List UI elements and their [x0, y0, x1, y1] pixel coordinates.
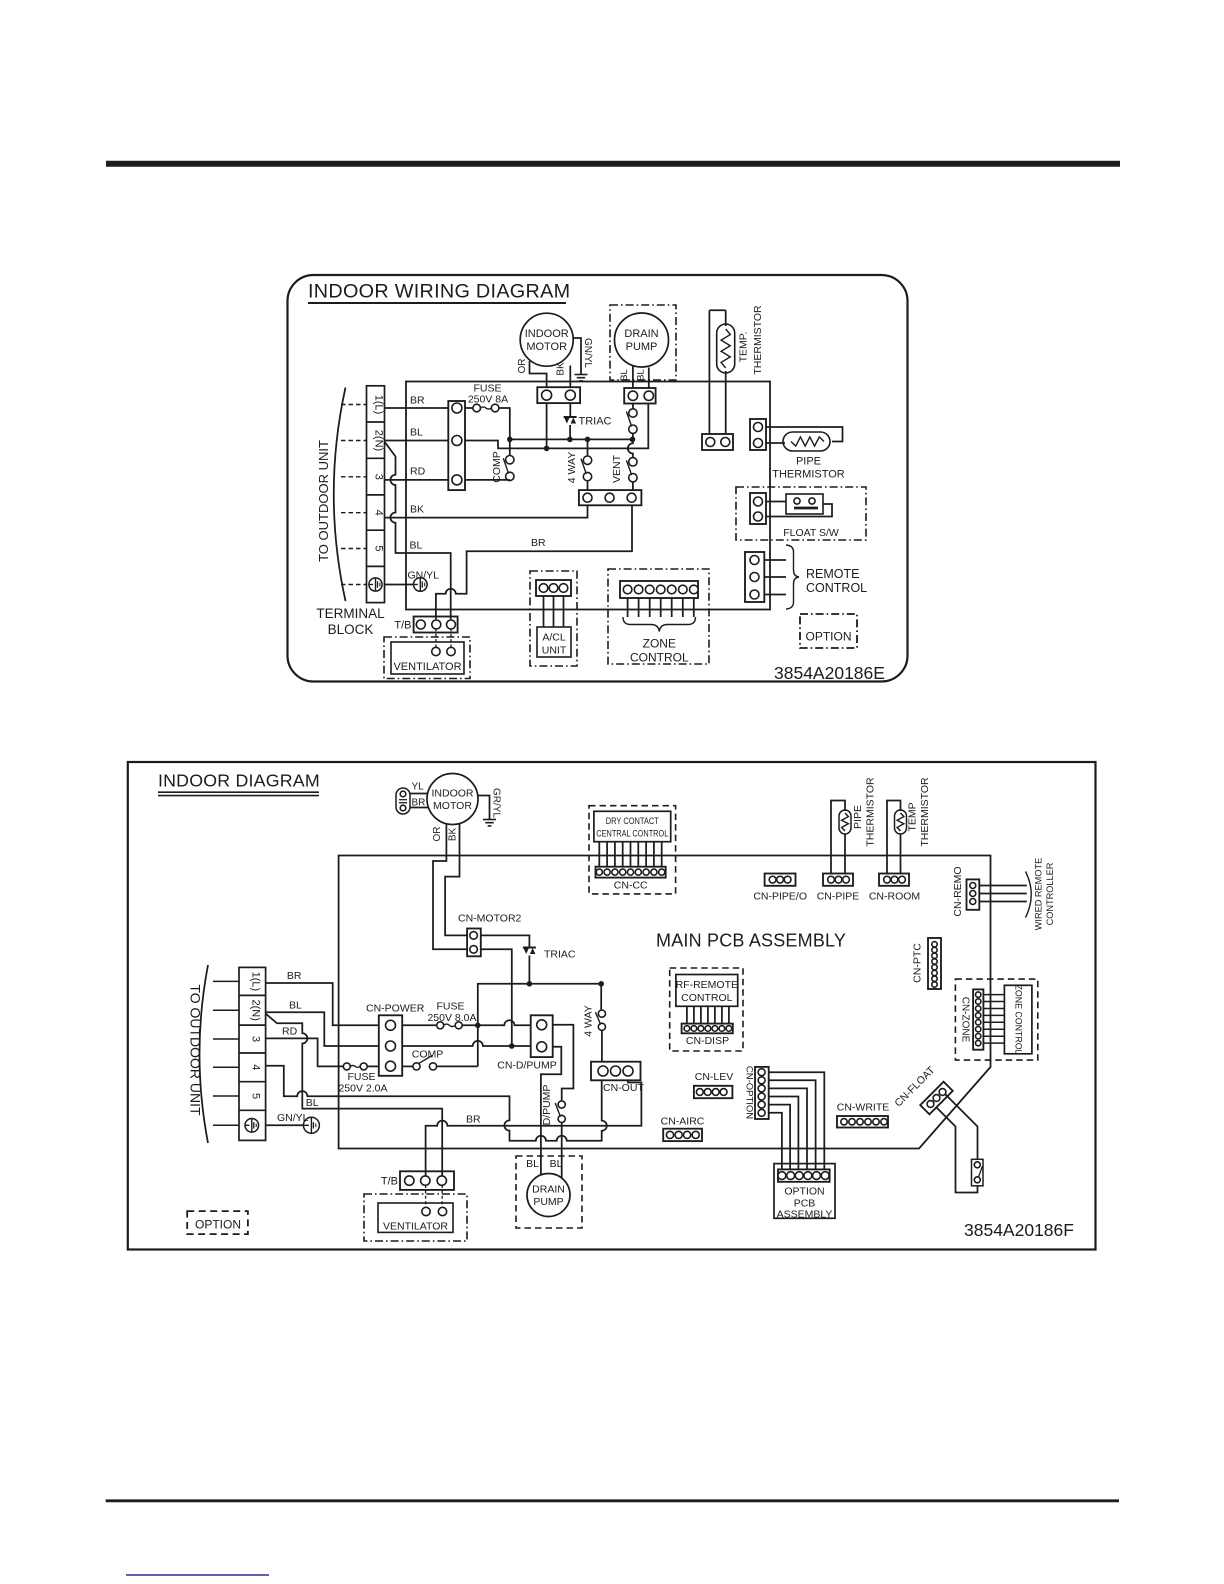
dry contact dashed box [589, 806, 676, 894]
CN-PTC pin8 [932, 982, 937, 987]
fuse 250V 8A [473, 404, 481, 412]
CN-LEV connector [694, 1086, 733, 1098]
GN/YL earth lug [414, 578, 428, 592]
remote wire 3 [764, 594, 786, 596]
svg-text:250V 8A: 250V 8A [468, 394, 508, 406]
terminal divider 2 (bottom) [239, 1024, 266, 1026]
drain lead BL right [648, 368, 650, 389]
float conn pin2 [754, 512, 763, 521]
cn-cc wire 1 [598, 842, 600, 867]
svg-text:CENTRAL CONTROL: CENTRAL CONTROL [596, 829, 668, 840]
svg-text:5: 5 [250, 1093, 262, 1099]
GN/YL earth lug (bottom) [303, 1117, 319, 1133]
CN-PTC pin3 [932, 953, 937, 958]
svg-text:OR: OR [517, 359, 528, 374]
svg-text:OPTION: OPTION [805, 630, 851, 644]
svg-text:CN-PIPE: CN-PIPE [817, 891, 860, 903]
svg-text:PIPE: PIPE [852, 805, 864, 829]
svg-text:RD: RD [410, 466, 426, 478]
wire triac to node (bottom) [528, 956, 530, 984]
svg-text:T/B: T/B [381, 1176, 398, 1188]
power connector pin1 [452, 403, 462, 413]
svg-text:A/CL: A/CL [542, 632, 566, 644]
pipe thermistor connector (2-pin vertical) [750, 419, 766, 450]
svg-text:MOTOR: MOTOR [433, 800, 472, 812]
main PCB outline (pentagon) [339, 856, 991, 1149]
VENT stub to relay connector [632, 482, 634, 490]
svg-text:COMP: COMP [412, 1049, 444, 1061]
svg-text:250V 2.0A: 250V 2.0A [338, 1083, 387, 1095]
float contact a [794, 498, 800, 504]
svg-text:BR: BR [466, 1114, 481, 1126]
stub terminal 1 (bottom) [213, 980, 239, 982]
svg-text:ZONE: ZONE [643, 637, 676, 651]
ventilator dashed riser 2 (top) [450, 628, 452, 647]
svg-text:4 WAY: 4 WAY [583, 1005, 595, 1037]
svg-text:MAIN PCB ASSEMBLY: MAIN PCB ASSEMBLY [656, 931, 846, 951]
svg-text:BK: BK [448, 828, 459, 842]
junction dot fuse8A output [475, 1023, 481, 1029]
bottom title underline 2 [158, 795, 319, 797]
hot node line A [510, 438, 633, 440]
motor connector (2-pin) [537, 387, 580, 403]
svg-text:CN-REMO: CN-REMO [952, 866, 964, 916]
float wire upper [766, 501, 786, 503]
zone wire 2 [638, 598, 640, 617]
dashed stub terminal 2 [341, 440, 367, 442]
indoor motor circle (bottom) [427, 774, 478, 825]
pipe thermistor element (bottom) [842, 813, 849, 831]
wired remote brace [1026, 872, 1032, 918]
option wire 4 [769, 1097, 799, 1170]
wire BK 4 to relay connector pin1 [385, 505, 588, 517]
svg-text:BR: BR [287, 970, 302, 982]
stub terminal 4 (bottom) [213, 1066, 239, 1068]
pipe thermistor leads (bottom) [831, 801, 845, 874]
svg-text:CN-PTC: CN-PTC [912, 943, 924, 983]
CN-ZONE pin6 [976, 1027, 981, 1032]
svg-text:CONTROL: CONTROL [630, 651, 689, 665]
svg-text:CONTROL: CONTROL [806, 581, 867, 595]
svg-text:GN/YL: GN/YL [277, 1112, 309, 1124]
t/b connector (3-pin) [414, 617, 458, 633]
cn-cc wire 9 [661, 842, 663, 867]
svg-text:CN-DISP: CN-DISP [686, 1035, 729, 1047]
svg-text:GR/YL: GR/YL [491, 788, 502, 818]
CN-PTC pin4 [932, 959, 937, 964]
CN-REMO pin2 [970, 891, 976, 897]
zone wire 1 (bottom) [983, 994, 1004, 996]
temp thermistor right lead upper [725, 310, 727, 326]
CN-OPTION pin5 [758, 1101, 765, 1108]
capacitor contact top [400, 791, 406, 797]
stub terminal 3 (bottom) [213, 1038, 239, 1040]
CN-PTC pin5 [932, 965, 937, 970]
CN-OPTION pin4 [758, 1093, 765, 1100]
zone brace (down) [623, 617, 696, 632]
t/b connector (bottom) [400, 1171, 454, 1190]
svg-text:WIRED REMOTE: WIRED REMOTE [1034, 858, 1044, 930]
4 WAY stub to relay connector [587, 481, 589, 490]
zone wire 7 [693, 598, 695, 617]
drain pump connector (2-pin) [624, 388, 655, 404]
float wire loop [766, 504, 832, 517]
CN-REMO pin1 [970, 883, 976, 889]
drain pump dashed box [610, 305, 676, 380]
wire1 pin1 to fuse8A [402, 1024, 437, 1026]
motor lead OR (bottom) [433, 824, 467, 950]
CN-POWER pin1 [386, 1020, 396, 1030]
svg-text:BL: BL [306, 1097, 319, 1109]
svg-text:BL: BL [526, 1158, 539, 1170]
junction dot vent/drain [630, 437, 636, 443]
fuse 250V 2.0A [343, 1063, 350, 1070]
cn-disp wire 4 [707, 1006, 709, 1023]
svg-text:CN-WRITE: CN-WRITE [837, 1102, 890, 1114]
zone wire 5 [671, 598, 673, 617]
svg-text:DRY CONTACT: DRY CONTACT [606, 816, 659, 827]
svg-text:TEMP.: TEMP. [738, 332, 750, 363]
CN-REMO pin3 [970, 899, 976, 905]
top diagram title underline [308, 302, 566, 304]
svg-text:TERMINAL: TERMINAL [316, 606, 385, 621]
drain pump dashed box (bottom) [516, 1156, 582, 1228]
dashed stub terminal 5 [341, 548, 367, 550]
svg-text:BL: BL [619, 369, 630, 381]
remote pin1 [750, 556, 759, 565]
svg-text:5: 5 [373, 545, 385, 551]
remo wire 1 [979, 885, 1027, 887]
terminal block divider 1 [367, 421, 385, 423]
zone wire 3 [649, 598, 651, 617]
option wire 5 [769, 1105, 790, 1170]
svg-text:PUMP: PUMP [533, 1196, 563, 1208]
rf-remote dashed box [670, 968, 743, 1051]
float s/w dash-dot box [736, 487, 866, 540]
hot node bus (bottom) [478, 984, 601, 1026]
page top rule [106, 161, 1120, 167]
CN-WRITE connector [837, 1116, 888, 1128]
COMP riser from fuse junction [477, 1025, 479, 1066]
capacitor bar 2 [399, 802, 407, 804]
a/cl dash-dot box [530, 571, 577, 666]
COMP riser from node [509, 439, 511, 455]
CN-D/PUMP pin2 [537, 1042, 547, 1052]
wire RD 3 to power connector [385, 479, 449, 481]
zone wire 4 (bottom) [983, 1014, 1004, 1016]
temp thermistor connector (2-pin) [702, 434, 733, 450]
svg-text:3854A20186F: 3854A20186F [964, 1220, 1074, 1240]
VENT relay contact [629, 458, 637, 466]
CN-DISP connector [682, 1024, 733, 1034]
option wire 1 [769, 1072, 825, 1169]
motor lead BK (bottom) [445, 823, 467, 935]
zone wire 1 [627, 598, 629, 617]
svg-text:VENT: VENT [611, 454, 623, 483]
CN-D/PUMP connector [531, 1015, 553, 1057]
terminal divider 1 (bottom) [239, 994, 266, 996]
wire BL 2(N) to CN-POWER pin2 [266, 1012, 379, 1046]
CN-PIPE/O connector [765, 874, 796, 886]
svg-text:CN-OUT: CN-OUT [603, 1082, 644, 1094]
remote wire 2 [764, 576, 786, 578]
svg-text:4: 4 [250, 1064, 262, 1070]
float bar [794, 507, 818, 510]
float connector (2-pin vertical) [750, 493, 766, 524]
D/PUMP contact [558, 1101, 565, 1108]
svg-text:CN-ZONE: CN-ZONE [960, 997, 971, 1043]
svg-text:REMOTE: REMOTE [806, 567, 859, 581]
motor ground wire GR/YL [478, 796, 490, 820]
cn-disp wire 2 [693, 1006, 695, 1023]
motor lead OR [530, 361, 547, 387]
float contact bottom (bottom) [974, 1177, 980, 1183]
terminal block divider 5 [367, 565, 385, 567]
terminal ground symbol [369, 578, 382, 591]
svg-text:FUSE: FUSE [347, 1071, 375, 1083]
CN-OPTION pin6 [758, 1109, 765, 1116]
wire ground terminal to GN/YL lug [385, 584, 414, 586]
option pcb box [774, 1164, 835, 1219]
top diagram: outer rounded frame [288, 275, 908, 682]
cn-disp wire 3 [700, 1006, 702, 1023]
bottom title underline 1 [158, 791, 319, 793]
terminal divider 5 (bottom) [239, 1109, 266, 1111]
CN-PTC pin2 [932, 947, 937, 952]
svg-text:DRAIN: DRAIN [532, 1184, 565, 1196]
CN-OPTION pin3 [758, 1085, 765, 1092]
CN-PTC pin6 [932, 970, 937, 975]
capacitor bar 1 [399, 799, 407, 801]
remote wire 1 [764, 559, 786, 561]
drain lead BL left [632, 367, 634, 389]
drain pump relay contact [629, 409, 637, 417]
junction dot fuse/comp [507, 437, 513, 443]
terminal block divider 3 [367, 494, 385, 496]
4 WAY relay contact [583, 456, 591, 464]
CN-ROOM connector [879, 874, 909, 886]
svg-text:FLOAT S/W: FLOAT S/W [783, 527, 839, 539]
svg-text:CN-POWER: CN-POWER [366, 1003, 425, 1015]
pipe thermistor lower lead [766, 442, 785, 444]
temp thermistor element (bottom) [897, 813, 904, 831]
CN-ZONE pin2 [976, 999, 981, 1004]
svg-text:CN-MOTOR2: CN-MOTOR2 [458, 913, 522, 925]
svg-text:INDOOR: INDOOR [525, 328, 569, 340]
zone wire 6 (bottom) [983, 1028, 1004, 1030]
dashed stub terminal 6 [341, 584, 367, 586]
pipe thermistor lower lead (bottom) [844, 834, 846, 874]
wire BR 1(L) to power connector [385, 407, 449, 409]
svg-text:TO OUTDOOR UNIT: TO OUTDOOR UNIT [316, 440, 331, 562]
motor capacitor capsule [396, 788, 410, 814]
CN-ZONE pin7 [976, 1034, 981, 1039]
CN-PTC pin7 [932, 976, 937, 981]
svg-text:250V 8.0A: 250V 8.0A [427, 1012, 476, 1024]
motor ground wire GN/YL [573, 338, 582, 375]
svg-text:1(L): 1(L) [373, 395, 385, 415]
CN-POWER pin2 [386, 1041, 396, 1051]
svg-text:CN-PIPE/O: CN-PIPE/O [753, 891, 807, 903]
wire2 pin2 to CN-D/PUMP pin2 (hop comp riser) [402, 1041, 531, 1046]
wire triac to node [569, 425, 571, 439]
float wire b [937, 1108, 978, 1193]
svg-text:OR: OR [432, 827, 443, 842]
ventilator pin1 (bottom) [422, 1207, 430, 1215]
wire 4way to CN-OUT [601, 1030, 603, 1061]
a/cl wire 3 [563, 596, 565, 627]
CN-CC connector [596, 867, 666, 878]
svg-text:CONTROL: CONTROL [681, 992, 732, 1004]
svg-text:BR: BR [531, 537, 546, 549]
svg-text:BR: BR [412, 798, 426, 809]
svg-text:THERMISTOR: THERMISTOR [919, 777, 931, 847]
svg-text:INDOOR: INDOOR [432, 788, 474, 800]
wire CN-D/PUMP pin2 to drain pump left [541, 1047, 561, 1175]
CN-ZONE connector [973, 989, 983, 1049]
svg-text:BK: BK [556, 362, 567, 376]
ventilator pin1 (top) [432, 647, 440, 655]
svg-text:THERMISTOR: THERMISTOR [752, 305, 764, 375]
svg-text:ZONE CONTROL: ZONE CONTROL [1014, 985, 1024, 1055]
cn-cc wire 5 [630, 842, 632, 867]
temp thermistor leads (bottom) [887, 801, 901, 874]
COMP contact (bottom) [413, 1063, 420, 1070]
dashed stub terminal 1 [341, 404, 367, 406]
ventilator riser 1 (bottom) [425, 1185, 427, 1207]
cn-disp wire 7 [728, 1006, 730, 1023]
wire RD 3 to fuse 2.0A [266, 1038, 343, 1066]
svg-text:4: 4 [373, 510, 385, 516]
drain pump circle (bottom) [527, 1174, 570, 1217]
ventilator riser 2 (bottom) [441, 1185, 443, 1207]
wire node to VENT contact (hop over neutral) [628, 439, 633, 457]
wire BL 2(N) to power connector [385, 440, 449, 442]
svg-text:BL: BL [636, 369, 647, 381]
svg-text:TRIAC: TRIAC [579, 416, 612, 428]
float contact b [809, 498, 815, 504]
a/cl unit box [537, 627, 571, 657]
svg-text:BL: BL [410, 427, 423, 439]
CN-PIPE connector [823, 874, 853, 886]
wire fuse to hot node [499, 408, 510, 439]
wire ground terminal to GN/YL lug (bottom) [266, 1124, 303, 1126]
svg-text:OPTION: OPTION [784, 1186, 824, 1198]
bottom diagram frame [128, 762, 1096, 1250]
svg-text:2(N): 2(N) [373, 430, 385, 451]
svg-text:ASSEMBLY: ASSEMBLY [777, 1209, 833, 1221]
ventilator box (top) [391, 642, 464, 674]
option dashed box (bottom) [187, 1211, 248, 1234]
svg-text:BK: BK [410, 504, 424, 516]
float conn pin1 [754, 497, 763, 506]
terminal ground symbol (bottom) [245, 1119, 259, 1133]
terminal block divider 4 [367, 529, 385, 531]
temp thermistor lower lead (bottom) [900, 834, 902, 874]
dry contact box [594, 811, 671, 841]
svg-text:TEMP: TEMP [907, 802, 919, 831]
zone wire 4 [660, 598, 662, 617]
terminal block divider 2 [367, 457, 385, 459]
outdoor-unit brace curve [334, 388, 346, 602]
svg-text:2(N): 2(N) [250, 1000, 262, 1021]
riser neutral to motor connector pin1 [546, 403, 548, 448]
svg-text:1(L): 1(L) [250, 972, 262, 992]
ventilator dash-dot box (top) [384, 637, 470, 679]
temp thermistor left lead [708, 310, 710, 434]
svg-text:D/PUMP: D/PUMP [541, 1085, 553, 1126]
CN-MOTOR2 pin1 [470, 932, 478, 940]
temp thermistor capsule (bottom) [895, 810, 907, 834]
zone dashed box (bottom) [955, 979, 1037, 1060]
wire CN-MOTOR2 pin2 to neutral [481, 949, 512, 1046]
dashed stub terminal 3 [341, 476, 367, 478]
remo wire 2 [979, 893, 1027, 895]
svg-text:TO OUTDOOR UNIT: TO OUTDOOR UNIT [188, 984, 204, 1116]
svg-text:3: 3 [250, 1036, 262, 1042]
wire motor pin2 to triac [569, 403, 571, 417]
CN-ZONE pin3 [976, 1006, 981, 1011]
motor ground symbol [575, 374, 588, 376]
svg-text:OPTION: OPTION [195, 1218, 241, 1232]
CN-OPTION pin1 [758, 1069, 765, 1076]
CN-PTC connector [928, 938, 941, 989]
ventilator dashed riser 1 (top) [435, 628, 437, 647]
pipe thermistor loop lead [766, 427, 843, 442]
indoor motor circle [520, 313, 573, 366]
CN-POWER pin3 [386, 1061, 396, 1071]
zone wire 2 (bottom) [983, 1001, 1004, 1003]
svg-text:4 WAY: 4 WAY [566, 452, 578, 484]
svg-text:CONTROLLER: CONTROLLER [1045, 862, 1055, 925]
svg-text:CN-AIRC: CN-AIRC [661, 1116, 705, 1128]
a/cl connector (3-pin) [536, 580, 571, 596]
wire D/PUMP contact to BR line [561, 1123, 563, 1126]
rf-remote box [676, 975, 738, 1007]
svg-text:BL: BL [289, 1000, 302, 1012]
junction dot triac [567, 437, 573, 443]
svg-text:PIPE: PIPE [796, 456, 821, 468]
svg-text:BL: BL [550, 1158, 563, 1170]
ventilator dash-dot box (bottom) [364, 1194, 467, 1241]
terminal divider 4 (bottom) [239, 1081, 266, 1083]
zone wire 7 (bottom) [983, 1035, 1004, 1037]
4 WAY riser from node [587, 439, 589, 456]
wire pin1 to fuse [465, 407, 473, 409]
neutral line B pin2 to drain connector pin2 [465, 404, 648, 449]
cn-disp wire 6 [721, 1006, 723, 1023]
ventilator box (bottom) [378, 1203, 453, 1232]
fuse 250V 8.0A [437, 1022, 444, 1029]
stub terminal 5 (bottom) [213, 1095, 239, 1097]
svg-text:3854A20186E: 3854A20186E [774, 663, 885, 683]
ventilator pin2 (top) [447, 647, 455, 655]
wire RD to COMP [465, 479, 510, 481]
svg-text:YL: YL [412, 782, 425, 793]
a/cl wire 1 [543, 596, 545, 627]
motor ground symbol (bottom) [483, 819, 496, 821]
float contact top (bottom) [974, 1162, 980, 1168]
remote brace [786, 545, 799, 609]
remo wire 3 [979, 901, 1027, 903]
CN-PTC pin1 [932, 942, 937, 947]
wire drain pump right [561, 1126, 563, 1178]
svg-text:CN-CC: CN-CC [614, 880, 648, 892]
svg-text:T/B: T/B [394, 620, 411, 632]
wire terminal4 to CN-OUT pin1 (multi-hop) [266, 1066, 607, 1141]
CN-FLOAT connector (rotated) [920, 1082, 953, 1115]
CN-ZONE pin8 [976, 1040, 981, 1045]
